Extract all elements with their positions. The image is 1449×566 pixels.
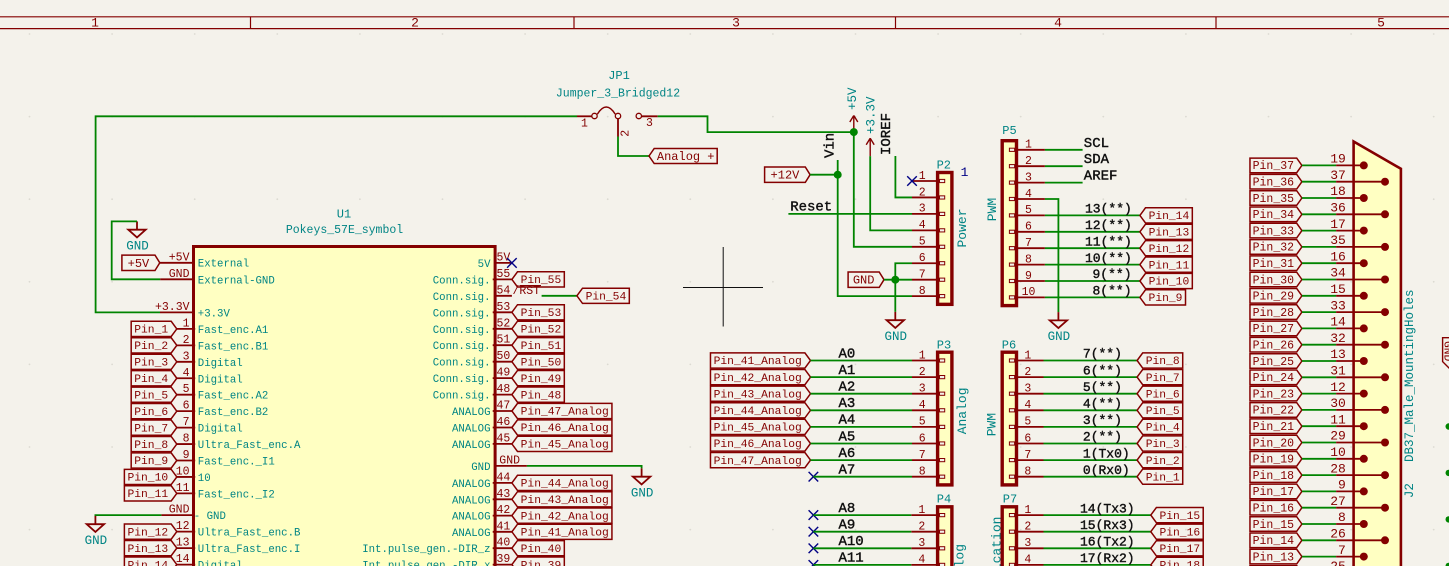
wire Pin_15 to J2	[1302, 523, 1336, 525]
wire Pin_28 to J2	[1302, 311, 1336, 313]
svg-text:+5V: +5V	[846, 87, 860, 110]
pin 7 of U1 with global label Pin_7	[131, 416, 243, 436]
pin 12 of J2	[1330, 380, 1368, 398]
svg-text:Fast_enc.B1: Fast_enc.B1	[198, 341, 269, 353]
pin 33 of J2	[1330, 298, 1389, 316]
wire Pin_27 to J2	[1302, 327, 1336, 329]
pin 36 of J2	[1330, 201, 1389, 219]
wire Pin_25 to J2	[1302, 360, 1336, 362]
svg-text:Pin_45_Analog: Pin_45_Analog	[521, 440, 609, 452]
svg-text:Pin_48: Pin_48	[521, 390, 562, 402]
global label Pin_37	[1250, 158, 1302, 173]
svg-text:43: 43	[497, 488, 511, 501]
global label Pin_13	[1250, 549, 1302, 564]
svg-text:+5V: +5V	[169, 251, 190, 264]
wire P6 pin 3 to Pin_6	[1044, 393, 1138, 395]
svg-text:Pin_16: Pin_16	[1253, 502, 1295, 515]
svg-text:3: 3	[732, 16, 740, 31]
svg-text:GND: GND	[169, 504, 190, 517]
svg-text:11: 11	[176, 482, 190, 495]
pin 14 of J2	[1330, 315, 1368, 333]
svg-text:3: 3	[1025, 171, 1032, 184]
svg-text:Conn.sig.: Conn.sig.	[433, 358, 491, 370]
svg-text:9: 9	[183, 449, 190, 462]
wire P7 pin 1 to Pin_15	[1044, 514, 1151, 516]
connector P7 Communication	[990, 493, 1044, 566]
global label +5V at U1 External pin	[122, 255, 160, 270]
pin 42 of U1 with global label Pin_42_Analog	[452, 504, 612, 524]
pin External (+5V) of U1	[160, 251, 249, 270]
svg-text:Pin_19: Pin_19	[1253, 454, 1295, 467]
svg-text:Pin_16: Pin_16	[1159, 527, 1200, 539]
svg-text:P5: P5	[1002, 124, 1016, 138]
svg-text:Ultra_Fast_enc.B: Ultra_Fast_enc.B	[198, 528, 301, 540]
svg-text:2: 2	[919, 186, 926, 199]
svg-text:7(**): 7(**)	[1083, 347, 1122, 362]
svg-text:P6: P6	[1002, 338, 1016, 352]
svg-text:A5: A5	[839, 429, 856, 445]
pin 8 of J2	[1336, 510, 1368, 528]
svg-text:PWM: PWM	[984, 413, 999, 436]
svg-text:7: 7	[1338, 543, 1346, 558]
pin 9 of J2	[1336, 478, 1368, 496]
svg-text:External: External	[198, 259, 249, 271]
svg-text:54: 54	[497, 284, 511, 297]
svg-text:Pin_3: Pin_3	[1146, 439, 1180, 451]
global label Pin_27	[1250, 321, 1302, 336]
pin 10 of U1 with global label Pin_10	[124, 465, 210, 485]
svg-text:ANALOG: ANALOG	[452, 512, 490, 524]
svg-text:1: 1	[581, 118, 588, 131]
svg-text:41: 41	[497, 520, 511, 533]
sheet frame ruler	[0, 16, 1449, 31]
svg-text:25: 25	[1330, 559, 1346, 566]
pin 5 of U1 with global label Pin_5	[131, 383, 268, 403]
svg-text:1: 1	[961, 165, 969, 180]
pin External-GND of U1	[160, 268, 275, 288]
svg-text:5: 5	[183, 383, 190, 396]
global label Pin_19	[1250, 452, 1302, 467]
svg-text:Pin_36: Pin_36	[1253, 176, 1295, 189]
power symbol +5V	[846, 87, 860, 132]
svg-text:ANALOG: ANALOG	[452, 528, 490, 540]
wire Pin_46_Analog to P3 pin 6	[811, 443, 913, 445]
global label Pin_16	[1151, 524, 1203, 539]
svg-text:Pin_5: Pin_5	[134, 390, 168, 402]
svg-text:4: 4	[1054, 16, 1062, 31]
svg-text:2: 2	[411, 16, 419, 31]
svg-text:3: 3	[919, 203, 926, 216]
power symbol GND below P2	[885, 312, 908, 344]
svg-text:Pin_2: Pin_2	[134, 341, 168, 353]
svg-text:8: 8	[1024, 466, 1031, 479]
svg-text:Pin_42_Analog: Pin_42_Analog	[521, 511, 609, 523]
pin 16 of J2	[1330, 249, 1368, 267]
global label Pin_15	[1151, 508, 1203, 523]
pin 9 of U1 with global label Pin_9	[131, 449, 275, 469]
svg-text:P4: P4	[937, 493, 951, 507]
svg-text:2: 2	[918, 521, 925, 534]
svg-text:Conn.sig.: Conn.sig.	[433, 292, 491, 304]
svg-text:Pin_22: Pin_22	[1253, 405, 1295, 418]
wire P5 pin 3 to net AREF	[1045, 182, 1083, 184]
svg-text:15: 15	[1330, 282, 1346, 297]
svg-text:Conn.sig.: Conn.sig.	[433, 374, 491, 386]
wire P6 pin 2 to Pin_7	[1044, 376, 1138, 378]
svg-text:2(**): 2(**)	[1083, 430, 1122, 445]
pin 14 of U1 with global label Pin_14	[124, 553, 242, 566]
wire Pin_14 to J2	[1302, 539, 1336, 541]
wire Pin_21 to J2	[1302, 425, 1336, 427]
svg-text:1: 1	[919, 349, 926, 362]
svg-text:10: 10	[1022, 286, 1036, 299]
svg-text:Digital: Digital	[198, 358, 243, 370]
svg-text:33: 33	[1330, 298, 1346, 313]
global label Pin_36	[1250, 174, 1302, 189]
global label Pin_15	[1250, 517, 1302, 532]
svg-text:ANALOG: ANALOG	[452, 440, 490, 452]
svg-text:14(Tx3): 14(Tx3)	[1080, 501, 1135, 516]
svg-text:Pin_11: Pin_11	[1149, 260, 1190, 272]
global label Pin_24	[1250, 370, 1302, 385]
jumper JP1 body	[577, 107, 658, 137]
svg-text:Pin_14: Pin_14	[1149, 211, 1190, 223]
svg-text:31: 31	[1330, 364, 1346, 379]
svg-text:0(Rx0): 0(Rx0)	[1083, 463, 1130, 478]
pin 13 of J2	[1330, 347, 1368, 365]
power symbol GND at U1 External-GND	[126, 221, 149, 253]
svg-text:15(Rx3): 15(Rx3)	[1080, 518, 1135, 533]
svg-text:42: 42	[497, 504, 511, 517]
svg-text:Pin_53: Pin_53	[521, 308, 562, 320]
global label Pin_30	[1250, 272, 1302, 287]
svg-text:Pin_2: Pin_2	[1146, 456, 1180, 468]
svg-text:6: 6	[1024, 432, 1031, 445]
pin 19 of J2	[1330, 152, 1368, 170]
svg-text:1: 1	[919, 170, 926, 183]
wire Pin_19 to J2	[1302, 458, 1336, 460]
svg-text:Pin_17: Pin_17	[1159, 544, 1200, 556]
svg-text:Pin_46_Analog: Pin_46_Analog	[714, 439, 802, 451]
svg-text:32: 32	[1330, 331, 1346, 346]
pin 29 of J2	[1330, 429, 1389, 447]
svg-text:Pin_9: Pin_9	[1149, 293, 1183, 305]
power symbol +3.3V	[864, 96, 878, 156]
wire P5 pin 4 to GND symbol	[1045, 199, 1059, 312]
svg-text:13: 13	[176, 537, 190, 550]
svg-text:SDA: SDA	[1084, 152, 1110, 168]
wire Pin_23 to J2	[1302, 393, 1336, 395]
wire P5 pin 2 to net SDA	[1045, 165, 1083, 167]
global label Pin_26	[1250, 337, 1302, 352]
wire P5 pin 7 to Pin_12	[1045, 247, 1140, 249]
svg-text:10: 10	[198, 473, 211, 485]
wire Pin_29 to J2	[1302, 295, 1336, 297]
svg-text:46: 46	[497, 416, 511, 429]
svg-text:Pin_8: Pin_8	[134, 440, 168, 452]
wire GND label to P2 pin 7	[884, 279, 912, 281]
svg-text:Analog: Analog	[953, 544, 968, 566]
svg-text:Digital: Digital	[198, 424, 243, 436]
pin 5V of U1 with no-connect	[478, 251, 517, 271]
pin 40 of U1 with global label Pin_40	[362, 537, 564, 557]
svg-text:Pin_9: Pin_9	[134, 456, 168, 468]
global label Pin_12	[1140, 241, 1192, 256]
svg-text:Pin_34: Pin_34	[1253, 209, 1295, 222]
global label +12V	[765, 167, 811, 182]
power symbol GND right of U1	[631, 468, 654, 500]
global label GND at P2	[848, 272, 884, 287]
svg-text:Pin_46_Analog: Pin_46_Analog	[521, 423, 609, 435]
svg-text:Conn.sig.: Conn.sig.	[433, 325, 491, 337]
svg-text:5: 5	[1024, 416, 1031, 429]
svg-text:4: 4	[919, 219, 926, 232]
svg-text:P2: P2	[937, 158, 951, 172]
svg-text:Jumper_3_Bridged12: Jumper_3_Bridged12	[556, 88, 680, 101]
pin 49 of U1 with global label Pin_49	[433, 367, 565, 387]
no-connect at P4 pin 1 (A8)	[809, 510, 819, 520]
svg-text:A10: A10	[839, 534, 864, 550]
wire Pin_47_Analog to P3 pin 7	[811, 459, 913, 461]
svg-text:Pin_37: Pin_37	[1253, 160, 1294, 173]
wire +5V to P2 pin 5	[854, 132, 912, 247]
svg-text:Power: Power	[955, 208, 970, 247]
global label Pin_9	[1140, 290, 1186, 305]
svg-text:8: 8	[183, 433, 190, 446]
svg-text:10(**): 10(**)	[1085, 251, 1132, 266]
svg-text:GND: GND	[85, 534, 108, 548]
svg-text:3: 3	[646, 117, 653, 130]
svg-text:GND: GND	[1048, 330, 1071, 344]
pin 10 of J2	[1330, 445, 1368, 463]
svg-text:Fast_enc.A2: Fast_enc.A2	[198, 391, 269, 403]
no-connect at P2 pin 1	[907, 176, 917, 186]
svg-text:19: 19	[1330, 152, 1346, 167]
pin 41 of U1 with global label Pin_41_Analog	[452, 520, 612, 540]
svg-text:Pin_1: Pin_1	[1146, 472, 1180, 484]
pin 39 of U1 with global label Pin_39	[362, 553, 564, 566]
svg-text:Pin_28: Pin_28	[1253, 307, 1295, 320]
svg-text:Pin_13: Pin_13	[1253, 551, 1295, 564]
wire P6 pin 8 to Pin_1	[1044, 476, 1138, 478]
svg-text:2: 2	[919, 366, 926, 379]
svg-text:GND: GND	[471, 462, 490, 474]
pin 35 of J2	[1330, 233, 1389, 251]
svg-text:Pin_47_Analog: Pin_47_Analog	[521, 407, 609, 419]
wire P6 pin 7 to Pin_2	[1044, 459, 1138, 461]
junction dots on right edge net	[1446, 423, 1449, 566]
svg-text:11(**): 11(**)	[1085, 234, 1132, 249]
wire Pin_43_Analog to P3 pin 3	[811, 393, 913, 395]
svg-text:A3: A3	[839, 396, 856, 412]
svg-text:+12V: +12V	[771, 169, 801, 183]
global label Pin_28	[1250, 305, 1302, 320]
svg-text:29: 29	[1330, 429, 1346, 444]
svg-text:Pin_12: Pin_12	[1149, 244, 1190, 256]
svg-text:37: 37	[1330, 168, 1346, 183]
svg-text:53: 53	[497, 301, 511, 314]
svg-text:Pin_43_Analog: Pin_43_Analog	[521, 495, 609, 507]
svg-text:Pin_41_Analog: Pin_41_Analog	[521, 528, 609, 540]
svg-text:14: 14	[1330, 315, 1346, 330]
global label Pin_33	[1250, 223, 1302, 238]
svg-text:ANALOG: ANALOG	[452, 479, 490, 491]
pin 48 of U1 with global label Pin_48	[433, 383, 565, 403]
svg-text:A0: A0	[839, 346, 856, 362]
svg-text:Pin_30: Pin_30	[1253, 274, 1295, 287]
pin 30 of J2	[1330, 396, 1389, 414]
connector P2 Power	[912, 158, 970, 304]
pin GND (left) of U1	[161, 504, 225, 524]
global label Pin_11	[1140, 257, 1192, 272]
svg-text:8: 8	[1338, 510, 1346, 525]
pin +3.3V of U1	[155, 301, 230, 321]
svg-text:6(**): 6(**)	[1083, 363, 1122, 378]
svg-text:External-GND: External-GND	[198, 275, 275, 287]
svg-text:13: 13	[1330, 347, 1346, 362]
svg-text:27: 27	[1330, 494, 1346, 509]
svg-text:Pin_40: Pin_40	[521, 544, 562, 556]
pin 47 of U1 with global label Pin_47_Analog	[452, 400, 612, 420]
svg-text:Pin_32: Pin_32	[1253, 242, 1295, 255]
svg-text:AREF: AREF	[1084, 169, 1118, 185]
svg-text:55: 55	[497, 268, 511, 281]
svg-text:Conn.sig.: Conn.sig.	[433, 275, 491, 287]
wire P7 pin 4 to Pin_18	[1044, 564, 1151, 566]
no-connect at P4 pin 2 (A9)	[809, 527, 819, 537]
svg-text:4: 4	[1024, 554, 1031, 566]
global label Pin_45_Analog	[710, 419, 810, 434]
wire Pin_34 to J2	[1302, 213, 1336, 215]
svg-text:12: 12	[1330, 380, 1346, 395]
global label Pin_23	[1250, 386, 1302, 401]
wire P7 pin 3 to Pin_17	[1044, 547, 1151, 549]
pin 12 of U1 with global label Pin_12	[124, 520, 301, 540]
svg-text:A7: A7	[839, 463, 856, 479]
connector P3 Analog	[912, 338, 970, 485]
svg-text:Conn.sig.: Conn.sig.	[433, 308, 491, 320]
global label Pin_41_Analog	[710, 353, 810, 368]
svg-text:5: 5	[919, 416, 926, 429]
svg-text:51: 51	[497, 334, 511, 347]
svg-text:3: 3	[183, 350, 190, 363]
svg-text:A4: A4	[839, 413, 856, 429]
svg-text:5(**): 5(**)	[1083, 380, 1122, 395]
svg-text:17(Rx2): 17(Rx2)	[1080, 551, 1135, 566]
svg-text:Pin_6: Pin_6	[134, 407, 168, 419]
pin 46 of U1 with global label Pin_46_Analog	[452, 416, 612, 436]
svg-text:Pin_13: Pin_13	[1149, 228, 1190, 240]
svg-text:1: 1	[1025, 139, 1032, 152]
global label Pin_42_Analog	[710, 370, 810, 385]
svg-text:6: 6	[919, 252, 926, 265]
pin 4 of U1 with global label Pin_4	[131, 367, 243, 387]
wire Pin_18 to J2	[1302, 474, 1336, 476]
pin 31 of J2	[1330, 364, 1389, 382]
global label Pin_1	[1137, 469, 1183, 484]
svg-text:52: 52	[497, 317, 511, 330]
svg-text:1: 1	[91, 16, 99, 31]
svg-text:4: 4	[1024, 399, 1031, 412]
global label Pin_17	[1250, 484, 1302, 499]
svg-text:Analog: Analog	[955, 387, 970, 434]
pin 54 of U1 with net label /RST	[433, 284, 541, 304]
wire Pin_31 to J2	[1302, 262, 1336, 264]
svg-text:Pin_26: Pin_26	[1253, 339, 1295, 352]
svg-text:Pin_44_Analog: Pin_44_Analog	[521, 479, 609, 491]
svg-text:Ultra_Fast_enc.I: Ultra_Fast_enc.I	[198, 544, 301, 556]
pin 26 of J2	[1330, 527, 1389, 545]
power symbol GND below P5	[1048, 312, 1071, 344]
svg-text:Pin_10: Pin_10	[1149, 277, 1190, 289]
wire Pin_30 to J2	[1302, 279, 1336, 281]
svg-text:A1: A1	[839, 363, 856, 379]
wire Reset to P2 pin 3	[788, 213, 912, 215]
svg-text:34: 34	[1330, 266, 1346, 281]
pin 45 of U1 with global label Pin_45_Analog	[452, 432, 612, 452]
global label Pin_2	[1137, 453, 1183, 468]
wire Pin_22 to J2	[1302, 409, 1336, 411]
global label Pin_18	[1250, 468, 1302, 483]
svg-text:Pin_1: Pin_1	[134, 325, 168, 337]
svg-text:9(**): 9(**)	[1093, 267, 1132, 282]
IC U1 reference	[286, 208, 403, 238]
wire Pin_16 to J2	[1302, 507, 1336, 509]
svg-text:J2: J2	[1403, 483, 1417, 498]
global label Pin_31	[1250, 256, 1302, 271]
wire U1 External-GND to GND symbol	[112, 221, 161, 279]
svg-text:9: 9	[1338, 478, 1346, 493]
svg-text:10: 10	[176, 465, 190, 478]
pin 11 of J2	[1330, 412, 1368, 430]
global label GND at right edge (rotated, pointing down)	[1440, 338, 1449, 369]
pin 2 of U1 with global label Pin_2	[131, 334, 268, 354]
svg-text:Pin_18: Pin_18	[1253, 470, 1295, 483]
svg-text:48: 48	[497, 383, 511, 396]
global label Pin_29	[1250, 289, 1302, 304]
svg-text:16(Tx2): 16(Tx2)	[1080, 535, 1135, 550]
wire Pin_35 to J2	[1302, 197, 1336, 199]
svg-text:Fast_enc.A1: Fast_enc.A1	[198, 325, 269, 337]
junction at +5V node	[850, 128, 858, 136]
junction at +12V / Vin node	[834, 171, 842, 179]
pin 6 of U1 with global label Pin_6	[131, 400, 268, 420]
wire JP1 pin3 to +5V junction	[658, 116, 854, 132]
wire Pin_44_Analog to P3 pin 4	[811, 409, 913, 411]
svg-text:Pin_17: Pin_17	[1253, 486, 1294, 499]
global label Pin_43_Analog	[710, 386, 810, 401]
svg-text:Pin_20: Pin_20	[1253, 437, 1295, 450]
pin 43 of U1 with global label Pin_43_Analog	[452, 488, 612, 508]
svg-text:2: 2	[1024, 366, 1031, 379]
pin 8 of U1 with global label Pin_8	[131, 433, 301, 453]
svg-text:40: 40	[497, 537, 511, 550]
global label Pin_4	[1137, 419, 1183, 434]
global label Pin_13	[1140, 224, 1192, 239]
svg-text:Conn.sig.: Conn.sig.	[433, 341, 491, 353]
connector P5 PWM	[985, 124, 1045, 306]
global label Pin_18	[1151, 557, 1203, 566]
svg-text:5: 5	[919, 236, 926, 249]
svg-text:1: 1	[1024, 349, 1031, 362]
pin 13 of U1 with global label Pin_13	[124, 537, 300, 557]
svg-text:11: 11	[1330, 412, 1346, 427]
svg-text:4(**): 4(**)	[1083, 397, 1122, 412]
global label Pin_47_Analog	[710, 453, 810, 468]
svg-text:A6: A6	[839, 446, 856, 462]
pin 15 of J2	[1330, 282, 1368, 300]
connector J2 DB37 body	[1354, 142, 1417, 566]
